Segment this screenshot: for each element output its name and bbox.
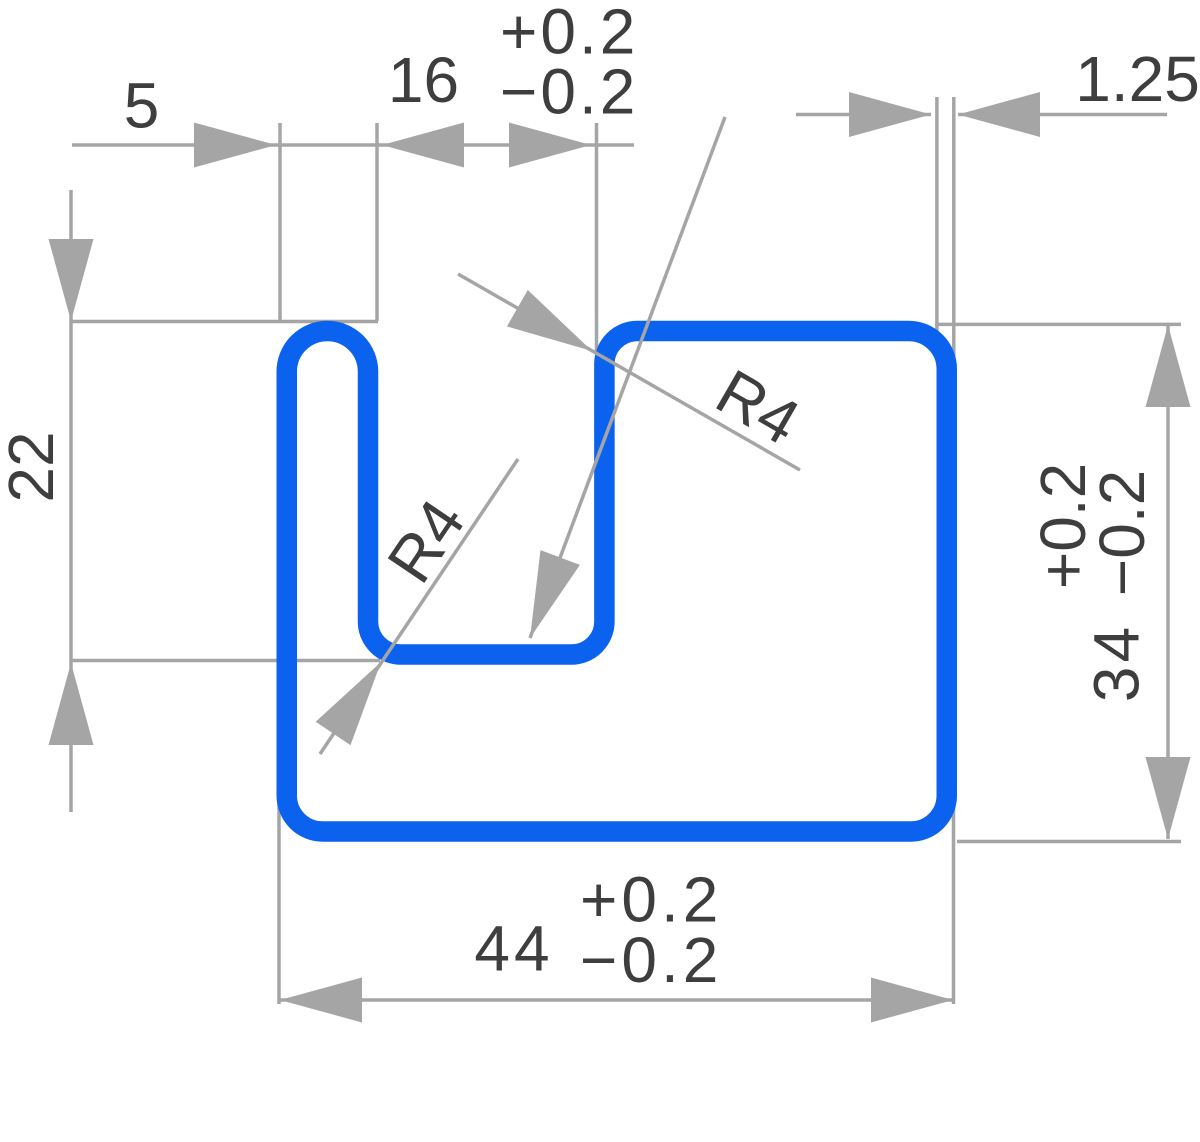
dimension 22: dimension line (69, 190, 73, 812)
svg-text:34: 34 (1081, 623, 1153, 702)
dimension 34: dimension line (1166, 325, 1170, 839)
dimension 44: right arrow (points right) (871, 978, 953, 1023)
svg-text:5: 5 (124, 70, 160, 142)
svg-text:−0.2: −0.2 (500, 56, 638, 128)
dimension 5: dimension line (72, 143, 378, 147)
dimension 16: dimension line with right tail (378, 143, 634, 147)
extension line y=324.4 (top surface, to the right) (935, 323, 1181, 327)
dimension 1.25: dimension line right tail (958, 113, 1167, 117)
extension line x=953.8 (outer right surface) (952, 97, 956, 363)
dimension 22: bottom arrow (points up) (49, 663, 94, 745)
svg-text:22: 22 (0, 431, 67, 502)
dimension 44: dimension line (280, 998, 953, 1002)
dimension 5 / 16: shared arrow (points left) (382, 123, 464, 168)
radius leader R4 (slot right wall top corner): leader line (458, 274, 800, 470)
extension line x=936.9 (inner right surface) (935, 97, 939, 346)
extension line x=596.5 (slot right wall) (595, 123, 599, 352)
dimension 1.25: dimension line left tail (796, 113, 931, 117)
radius leader R4 (slot bottom left corner): arrow (316, 662, 381, 745)
svg-text:1.25: 1.25 (1075, 43, 1200, 115)
dimension 1.25: left arrow (points right) (849, 92, 931, 137)
radius leader R4 (slot bottom left corner): leader line (320, 459, 518, 754)
dimension 16: right arrow (points right) (509, 123, 591, 168)
dimension 34: top arrow (points up) (1146, 325, 1191, 407)
extension line y=322.5 (top surface, to the left) (70, 320, 379, 324)
svg-text:−0.2: −0.2 (580, 924, 722, 996)
leader line (slot inner bottom): line (530, 117, 725, 638)
svg-text:44: 44 (474, 913, 553, 985)
radius leader R4 (slot right wall top corner): arrow (507, 290, 592, 351)
dimension 5: left outside arrow (points right) (194, 123, 276, 168)
profile outline (blue slotted tube cross-section) (287, 331, 947, 832)
dimension 44: left arrow (points left) (280, 978, 362, 1023)
extension line x=377 (finger outer right) (375, 123, 379, 321)
extension line x=280 (slot left / profile outer left of finger) (278, 123, 282, 321)
svg-text:16: 16 (388, 44, 459, 116)
extension line y=660.5 (slot outer bottom, to the left) (70, 659, 381, 663)
extension line x=281 (outer left, below) (277, 798, 281, 1004)
extension line x=953.5 (outer right, below) (952, 798, 956, 1004)
dimension 34: bottom arrow (points down) (1146, 757, 1191, 839)
svg-text:−0.2: −0.2 (1086, 470, 1158, 596)
leader line (slot inner bottom): arrow (530, 550, 580, 638)
dimension 1.25: right arrow (points left) (958, 92, 1040, 137)
dimension 22: top arrow (points down) (49, 239, 94, 321)
extension line y=841.5 (bottom surface, to the right) (957, 840, 1181, 844)
